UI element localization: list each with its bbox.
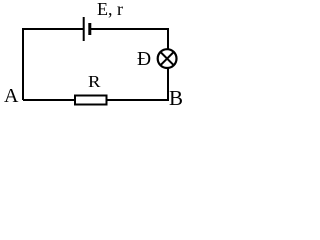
- wire top-left horizontal (A corner up to battery): [23, 29, 83, 100]
- label D lamp: [137, 49, 151, 71]
- wire lamp bottom to B corner to resistor: [108, 68, 169, 100]
- lamp D circle: [158, 49, 177, 68]
- lamp D cross stroke 1: [161, 52, 174, 65]
- node B label: [169, 86, 183, 111]
- lamp D cross stroke 2: [161, 52, 174, 65]
- battery E,r short plate: [88, 23, 91, 35]
- wire resistor to A corner: [23, 99, 74, 101]
- resistor R box: [75, 96, 107, 105]
- wire battery to top-right corner down to lamp: [91, 29, 168, 49]
- battery E,r long plate: [83, 17, 85, 41]
- node A label: [4, 85, 18, 108]
- label E, r: [97, 0, 123, 20]
- label R: [88, 72, 100, 92]
